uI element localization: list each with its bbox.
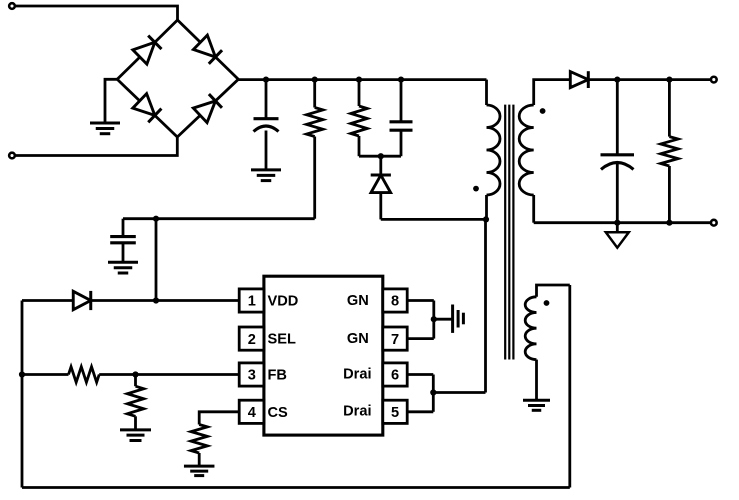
wire D5 anode lead — [379, 193, 382, 220]
transformer core line 1 — [504, 105, 506, 360]
wire C4 top lead — [616, 80, 619, 155]
svg-text:Drai: Drai — [343, 366, 371, 382]
wire aux bottom lead — [535, 360, 538, 400]
resistor R2 — [351, 106, 367, 136]
node bus-R2 — [356, 77, 362, 83]
wire R2 top lead — [358, 80, 361, 106]
transformer core line 2 — [508, 105, 510, 360]
wire to chip ground — [434, 318, 452, 321]
wire secondary top lead — [534, 80, 570, 105]
wire aux top lead — [537, 285, 570, 297]
node out-C4 — [614, 77, 620, 83]
wire R2 bottom lead — [358, 136, 361, 156]
wire C1 top lead — [265, 80, 268, 119]
input terminal J2 (neutral) — [9, 153, 15, 159]
transformer secondary winding — [519, 105, 534, 195]
wire D5 to primary bottom — [381, 218, 486, 221]
resistor R5 — [661, 137, 678, 166]
capacitor C3 bottom plate — [390, 129, 413, 132]
svg-text:GN: GN — [347, 293, 369, 309]
svg-text:3: 3 — [248, 368, 256, 384]
svg-text:GN: GN — [347, 331, 369, 347]
wire primary bottom lead — [485, 195, 488, 219]
pin 3 box — [239, 363, 264, 386]
wire pin5 stub — [407, 410, 433, 413]
wire FB to pin3 — [99, 373, 239, 376]
wire HV bus — [238, 78, 486, 81]
wire left rail — [21, 301, 24, 488]
transformer auxiliary winding — [525, 297, 536, 360]
wire output return rail — [534, 221, 714, 224]
output terminal + — [711, 77, 717, 83]
wire FB from rail — [22, 373, 69, 376]
ground (aux) — [523, 399, 550, 402]
svg-text:8: 8 — [391, 294, 399, 310]
ground (R4) — [120, 428, 151, 431]
wire R1 bottom lead — [313, 137, 316, 219]
node bus-C3 — [398, 77, 404, 83]
wire input neutral to bridge bottom — [16, 137, 178, 156]
svg-text:Drai: Drai — [343, 404, 371, 420]
wire R5 bottom lead — [668, 166, 671, 223]
ground (C1) — [251, 168, 281, 171]
capacitor C4 plate — [601, 153, 635, 156]
wire drain to transformer — [433, 391, 485, 394]
pin 1 box — [239, 289, 264, 312]
wire R6 bottom lead — [198, 453, 201, 466]
capacitor C1 curved plate — [254, 126, 279, 132]
wire R4 bottom lead — [134, 416, 137, 429]
wire bridge edge top-left — [117, 20, 177, 79]
secondary ground (open triangle) — [606, 232, 629, 247]
output terminal - — [711, 220, 717, 226]
svg-text:SEL: SEL — [268, 332, 296, 348]
clamp diode D5 — [371, 175, 391, 193]
op-amp U1 controller body — [264, 276, 383, 435]
capacitor C4 curved plate — [601, 163, 634, 170]
wire bridge edge top-right — [178, 20, 239, 79]
polarity dot primary — [473, 186, 479, 192]
wire secondary ground stub — [616, 223, 619, 233]
wire VDD junction vertical — [155, 219, 158, 301]
polarity dot secondary — [540, 108, 546, 114]
wire bridge edge bottom-right — [177, 79, 238, 137]
svg-text:5: 5 — [391, 405, 399, 421]
node drain-bracket — [430, 389, 436, 395]
wire D5 cathode lead — [379, 156, 382, 175]
ground (R6) — [184, 465, 215, 468]
node gnd-bracket — [431, 316, 437, 322]
wire C2 bottom lead — [122, 243, 125, 262]
ground (C2) — [108, 261, 138, 264]
wire pin7 stub — [407, 337, 434, 340]
bridge diode D4 (lower-right) — [193, 101, 215, 123]
vdd diode D7 — [73, 291, 91, 309]
wire snubber bottom — [359, 155, 401, 158]
capacitor C1 plate — [254, 117, 279, 120]
resistor R6 (current sense) — [191, 425, 207, 454]
polarity dot auxiliary — [544, 300, 550, 306]
wire pin6 stub — [407, 373, 433, 376]
capacitor C2 top plate — [110, 235, 136, 238]
node bus-C1 — [263, 77, 269, 83]
wire pin8-7 bracket — [432, 301, 435, 339]
wire aux to bottom rail — [568, 285, 571, 488]
wire pin8 stub — [407, 299, 434, 302]
node left-rail-FB — [19, 371, 25, 377]
wire pin6-5 bracket — [432, 375, 435, 412]
wire bridge left vertex to ground — [105, 79, 117, 123]
svg-text:4: 4 — [248, 405, 257, 421]
wire C4 bottom lead — [616, 162, 619, 223]
wire secondary bottom lead — [532, 195, 535, 223]
node bus-R1 — [312, 77, 318, 83]
wire startup row — [123, 217, 315, 220]
bridge diode D2 (upper-right) — [193, 35, 215, 57]
node return-C4 — [614, 220, 620, 226]
wire input line to bridge top — [16, 6, 178, 20]
pin 4 box — [239, 400, 264, 423]
capacitor C2 bottom plate — [110, 241, 136, 244]
wire CS from pin4 — [199, 412, 239, 425]
resistor R4 (divider) — [127, 386, 143, 416]
resistor R3 (feedback) — [69, 367, 100, 383]
wire R4 top lead — [134, 375, 137, 387]
wire C2 top lead — [122, 219, 125, 237]
wire primary top lead — [485, 80, 488, 105]
bridge diode D1 (upper-left) — [133, 42, 155, 64]
node return-R5 — [666, 220, 672, 226]
transformer core line 3 — [512, 105, 514, 360]
wire output rail — [589, 78, 714, 81]
svg-text:VDD: VDD — [268, 294, 299, 310]
pin 5 box — [383, 400, 407, 423]
node startup-junction — [153, 216, 159, 222]
wire bottom rail — [22, 486, 570, 489]
node primary-drain — [483, 216, 489, 222]
pin 8 box — [383, 289, 407, 312]
svg-text:7: 7 — [391, 332, 399, 348]
svg-text:CS: CS — [268, 405, 289, 421]
wire drain vertical — [484, 219, 487, 392]
pin 6 box — [383, 363, 407, 386]
input terminal J1 (line) — [9, 3, 15, 9]
capacitor C3 top plate — [390, 120, 413, 123]
ground (bridge) — [90, 122, 120, 125]
wire bridge edge bottom-left — [117, 79, 177, 137]
svg-text:6: 6 — [391, 368, 399, 384]
node FB-divider — [132, 371, 138, 377]
bridge diode D3 (lower-left) — [133, 94, 155, 116]
wire VDD to pin1 — [91, 299, 238, 302]
pin 7 box — [383, 327, 407, 350]
wire VDD from rail — [22, 299, 73, 302]
node snubber-diode — [378, 153, 384, 159]
node out-R5 — [666, 77, 672, 83]
wire R5 top lead — [668, 80, 671, 137]
resistor R1 — [307, 108, 323, 137]
wire C1 bottom lead — [265, 131, 268, 170]
svg-text:FB: FB — [268, 368, 287, 384]
wire C3 bottom lead — [400, 130, 403, 156]
wire C3 top lead — [400, 80, 403, 122]
chip ground (rotated) — [451, 305, 454, 333]
pin 2 box — [239, 327, 264, 350]
wire R1 top lead — [313, 80, 316, 108]
svg-text:2: 2 — [248, 332, 256, 348]
svg-text:1: 1 — [248, 294, 256, 310]
node VDD-junction — [153, 297, 159, 303]
transformer primary winding — [487, 105, 501, 195]
output diode D6 — [570, 72, 588, 88]
